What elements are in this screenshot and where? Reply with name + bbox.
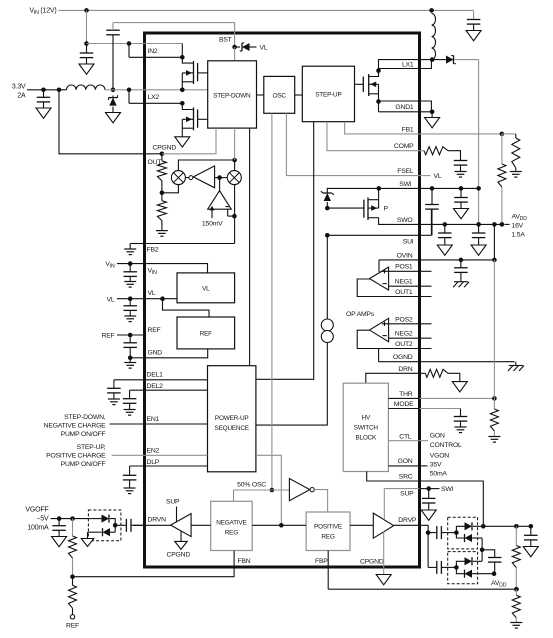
transistor Q3 boost NMOS xyxy=(355,83,364,85)
svg-text:STEP-UP,: STEP-UP, xyxy=(77,444,106,451)
block REF xyxy=(177,317,235,349)
svg-text:BST: BST xyxy=(219,37,232,44)
wire VL to REF block xyxy=(163,299,210,317)
150mV arrow input xyxy=(211,207,213,218)
svg-text:OSC: OSC xyxy=(273,92,287,99)
svg-text:POS1: POS1 xyxy=(395,264,413,271)
junction OUT node xyxy=(160,152,165,157)
diode DP1 xyxy=(456,526,464,532)
wire BST to STEP-DOWN xyxy=(234,47,236,61)
svg-text:DRVP: DRVP xyxy=(398,517,417,524)
wire VL pin to VL block xyxy=(145,298,178,300)
svg-text:35V: 35V xyxy=(430,462,442,469)
wire 50% OSC to NEGATIVE REG xyxy=(234,490,272,501)
capacitor SWI to ground xyxy=(460,188,462,197)
wire VIN branch down to IN2 line xyxy=(86,10,88,43)
capacitor bootstrap BST xyxy=(112,35,114,90)
svg-text:EN1: EN1 xyxy=(147,416,160,423)
diode boost rectifier D1 xyxy=(432,59,446,61)
wire regs common drive xyxy=(252,524,306,526)
svg-text:CONTROL: CONTROL xyxy=(430,442,462,449)
inductor L1 boost xyxy=(429,8,434,13)
ground DRN xyxy=(452,382,467,392)
IC boundary xyxy=(145,33,420,567)
svg-text:NEGATIVE: NEGATIVE xyxy=(216,519,246,526)
capacitor input bypass C-IN2 xyxy=(86,44,88,54)
ground GND pin xyxy=(129,358,131,363)
svg-text:DLP: DLP xyxy=(147,459,160,466)
svg-text:LX2: LX2 xyxy=(148,94,160,101)
ground DN2 xyxy=(87,532,89,538)
svg-text:STEP-DOWN,: STEP-DOWN, xyxy=(64,414,106,421)
svg-text:NEGATIVE CHARGE: NEGATIVE CHARGE xyxy=(44,423,106,430)
svg-text:FSEL: FSEL xyxy=(397,168,414,175)
wire OSC to STEP-UP xyxy=(295,94,303,96)
inverter between multipliers xyxy=(185,177,189,179)
svg-text:MODE: MODE xyxy=(394,401,414,408)
wire 50% OSC to inverter xyxy=(272,489,290,491)
wire current source down to power-up sequence xyxy=(256,343,327,426)
svg-text:P: P xyxy=(384,206,389,213)
svg-text:HV: HV xyxy=(362,414,371,421)
svg-text:REF: REF xyxy=(200,331,212,338)
svg-text:OGND: OGND xyxy=(393,354,413,361)
svg-text:SUI: SUI xyxy=(403,239,414,246)
wire STEP-DOWN to OSC xyxy=(257,94,264,96)
svg-text:1.5A: 1.5A xyxy=(512,232,526,239)
driver DRVN xyxy=(191,524,211,526)
junction BST xyxy=(232,45,237,50)
capacitor VIN right bypass xyxy=(473,10,475,19)
diode schottky catch D2 xyxy=(112,96,114,98)
ground OGND slash xyxy=(509,365,523,367)
wire DRVP out xyxy=(394,525,428,532)
ground Q2 source xyxy=(175,137,190,147)
op-amp U2 xyxy=(370,318,389,342)
capacitor AVDD 2 xyxy=(478,224,480,233)
ground COMP xyxy=(455,171,467,173)
svg-text:OP AMPs: OP AMPs xyxy=(346,311,375,318)
resistor COMP xyxy=(424,147,448,155)
svg-text:FBN: FBN xyxy=(238,558,251,565)
block STEP-DOWN xyxy=(208,61,257,128)
diode DP4 xyxy=(456,567,464,573)
resistor VGOFF feedback upper xyxy=(72,519,74,536)
wire power-up to regs EN xyxy=(256,455,281,525)
svg-text:SUP: SUP xyxy=(166,499,180,506)
junction CPGND branch xyxy=(57,88,62,93)
svg-text:CPGND: CPGND xyxy=(153,144,177,151)
svg-text:DEL2: DEL2 xyxy=(147,383,164,390)
wire GND to REF block xyxy=(145,349,208,358)
capacitor VGON out xyxy=(530,526,532,535)
svg-text:STEP-DOWN: STEP-DOWN xyxy=(213,92,251,99)
capacitor DEL1 xyxy=(113,380,115,389)
wire FBN rail xyxy=(73,551,235,577)
svg-text:REF: REF xyxy=(66,623,79,630)
wire boost output down xyxy=(478,60,480,225)
svg-text:POS2: POS2 xyxy=(395,316,413,323)
junction LX2 node xyxy=(111,88,116,93)
resistor FB1 to AVDD xyxy=(501,134,503,164)
svg-text:GON: GON xyxy=(430,433,445,440)
svg-text:100mA: 100mA xyxy=(27,525,49,532)
capacitor flying SWI-SUI xyxy=(431,188,433,204)
svg-text:IN2: IN2 xyxy=(148,48,158,55)
diode DN2 xyxy=(114,525,116,532)
resistor DRN xyxy=(425,369,448,377)
capacitor VIN bypass xyxy=(129,264,131,272)
svg-text:GND1: GND1 xyxy=(395,104,414,111)
wire SWO AVDD rail xyxy=(420,223,502,225)
wire divider tap to multiplier xyxy=(162,185,179,193)
wire X1 top xyxy=(178,160,234,171)
ground under D2 xyxy=(106,113,121,123)
wire LX2 gray into IC xyxy=(105,89,208,91)
wire CPGND return xyxy=(59,90,162,154)
wire THR to AVDD xyxy=(493,260,495,399)
transistor P charge-pump switch xyxy=(327,207,364,209)
capacitor interstage xyxy=(482,550,495,558)
svg-text:COMP: COMP xyxy=(394,143,414,150)
junction IN2 node xyxy=(84,41,89,46)
resistor FBP upper xyxy=(515,526,517,545)
multiplier X1 xyxy=(171,171,185,185)
wire power-up to STEP-UP xyxy=(256,122,314,380)
transistor Q1 buck high-side NMOS xyxy=(180,55,185,60)
block VL xyxy=(177,273,235,303)
svg-text:OUT2: OUT2 xyxy=(395,341,413,348)
wire IN2 black pair xyxy=(127,41,132,46)
capacitor COMP xyxy=(448,151,461,161)
svg-text:16V: 16V xyxy=(512,223,524,230)
wire LX2 black pair xyxy=(127,88,132,93)
capacitor AVDD 1 xyxy=(444,224,446,233)
diode DP3 xyxy=(456,561,464,567)
block OSC xyxy=(264,76,295,113)
capacitor SUP xyxy=(428,489,430,499)
svg-text:3.3V: 3.3V xyxy=(12,84,26,91)
svg-text:VL: VL xyxy=(148,290,156,297)
svg-text:NEG2: NEG2 xyxy=(395,331,413,338)
wire inverter to POSITIVE REG xyxy=(314,490,327,512)
capacitor OVIN xyxy=(460,260,462,268)
wire bootstrap to BST pin xyxy=(113,23,235,47)
junction 3.3V cap xyxy=(41,88,46,93)
svg-text:REG: REG xyxy=(225,529,238,536)
svg-text:SUP: SUP xyxy=(400,491,414,498)
wire VIN rail xyxy=(59,9,474,11)
block NEGATIVE REG xyxy=(211,501,253,550)
wire VGOFF node xyxy=(51,518,89,520)
resistor THR to ground xyxy=(493,398,495,409)
svg-text:FB1: FB1 xyxy=(402,126,414,133)
svg-text:VL: VL xyxy=(107,296,115,303)
svg-text:SWO: SWO xyxy=(397,217,413,224)
svg-text:LX1: LX1 xyxy=(402,61,414,68)
capacitor VGOFF xyxy=(58,519,60,526)
svg-text:SRC: SRC xyxy=(399,473,413,480)
svg-text:2A: 2A xyxy=(17,93,26,100)
ground FB1 divider xyxy=(510,171,522,173)
svg-text:POWER-UP: POWER-UP xyxy=(215,415,249,422)
block POWER-UP SEQUENCE xyxy=(208,366,256,472)
minus input xyxy=(225,206,229,208)
capacitor DRVN flying xyxy=(115,524,126,526)
svg-text:VL: VL xyxy=(202,286,210,293)
wire SUP to DRVP driver xyxy=(383,489,385,520)
op-amp U1 xyxy=(370,267,389,290)
svg-text:SWI: SWI xyxy=(441,486,454,493)
resistor FBP lower xyxy=(515,589,517,595)
diode DP2 xyxy=(456,533,464,538)
svg-text:THR: THR xyxy=(399,391,413,398)
svg-text:GON: GON xyxy=(398,458,413,465)
wire STEP-DOWN down to X2 xyxy=(234,128,236,160)
inverter 50% OSC xyxy=(289,479,309,501)
svg-text:150mV: 150mV xyxy=(202,221,223,228)
wire X2 down to FB2 xyxy=(234,185,236,244)
svg-text:CPGND: CPGND xyxy=(360,559,384,566)
diode pack negative pump xyxy=(88,510,121,541)
junction VIN-branch xyxy=(84,8,89,13)
diode DN1 xyxy=(88,518,101,520)
svg-text:50% OSC: 50% OSC xyxy=(237,482,266,489)
comparator 150mV xyxy=(219,178,221,191)
wire OSC 50% line xyxy=(271,113,273,490)
svg-text:VL: VL xyxy=(260,45,268,52)
svg-text:REF: REF xyxy=(148,327,161,334)
svg-text:PUMP ON/OFF: PUMP ON/OFF xyxy=(61,461,106,468)
svg-text:OUT1: OUT1 xyxy=(395,289,413,296)
current source to op-amps xyxy=(321,319,333,331)
svg-text:NEG1: NEG1 xyxy=(395,279,413,286)
zener shunt at P switch xyxy=(327,188,379,193)
ground VIN right cap xyxy=(466,31,481,41)
wire zener node down to current source xyxy=(326,235,328,319)
inductor L2 buck xyxy=(67,85,106,90)
wire OVIN to AVDD rail xyxy=(493,224,495,260)
capacitor DEL2 xyxy=(129,390,131,399)
resistor VGOFF feedback lower to REF xyxy=(72,577,74,586)
wire VGON rail xyxy=(483,525,531,527)
block POSITIVE REG xyxy=(306,512,350,551)
driver DRVP xyxy=(350,524,373,526)
ground OVIN slash xyxy=(454,281,468,283)
ground under 3.3V cap xyxy=(36,108,51,118)
svg-text:CPGND: CPGND xyxy=(167,552,191,559)
internal error amp chain: divider xyxy=(161,154,163,161)
positive charge pump stage 2 xyxy=(427,533,429,568)
wire to X2 xyxy=(215,177,228,179)
svg-text:VGOFF: VGOFF xyxy=(25,507,48,514)
svg-text:VGON: VGON xyxy=(430,453,450,460)
svg-text:PUMP ON/OFF: PUMP ON/OFF xyxy=(61,431,106,438)
ground CPGND left driver xyxy=(180,531,182,541)
svg-text:SEQUENCE: SEQUENCE xyxy=(215,425,249,432)
svg-text:SWITCH: SWITCH xyxy=(354,424,379,431)
svg-text:STEP-UP: STEP-UP xyxy=(315,91,341,98)
terminal REF xyxy=(70,615,74,619)
capacitor VL bypass xyxy=(129,299,131,306)
svg-text:POSITIVE CHARGE: POSITIVE CHARGE xyxy=(46,453,106,460)
wire FB2 external ground xyxy=(130,243,144,245)
svg-text:GND: GND xyxy=(148,350,163,357)
svg-text:50mA: 50mA xyxy=(430,471,448,478)
wire GND1 loop xyxy=(379,101,432,112)
resistor FB1 top divider xyxy=(502,133,516,135)
wire CPGND to STEP-DOWN xyxy=(162,128,216,154)
wire IN2 gray into IC xyxy=(87,43,183,45)
svg-text:POSITIVE: POSITIVE xyxy=(314,524,342,531)
svg-text:DEL1: DEL1 xyxy=(147,372,164,379)
svg-text:BLOCK: BLOCK xyxy=(355,434,377,441)
svg-text:REF: REF xyxy=(102,332,115,339)
ground GND1 xyxy=(431,112,433,118)
wire FSEL to OSC xyxy=(286,113,419,175)
diode BST-VL xyxy=(235,46,240,48)
svg-text:EN2: EN2 xyxy=(147,448,160,455)
capacitor REF bypass xyxy=(129,335,131,343)
wire 3.3V node xyxy=(27,89,67,91)
capacitor 3.3V output xyxy=(43,90,45,98)
capacitor DLP xyxy=(129,466,131,475)
svg-text:FB2: FB2 xyxy=(147,247,159,254)
svg-text:DRN: DRN xyxy=(398,366,412,373)
ground under C-IN2 xyxy=(79,64,94,74)
svg-text:FBP: FBP xyxy=(315,558,328,565)
multiplier X2 xyxy=(227,171,241,185)
svg-text:VL: VL xyxy=(434,173,442,180)
wire LX1 loop xyxy=(379,60,433,71)
svg-text:SWI: SWI xyxy=(399,181,412,188)
block STEP-UP xyxy=(302,66,354,122)
wire VIN to VL block xyxy=(145,264,208,273)
positive charge pump stage 1 xyxy=(428,532,437,534)
wire STEP-DOWN to power-up xyxy=(249,128,251,366)
transistor Q2 buck low-side NMOS xyxy=(180,101,185,106)
block HV SWITCH BLOCK xyxy=(343,383,388,471)
capacitor MODE xyxy=(460,409,462,417)
svg-text:OVIN: OVIN xyxy=(397,252,413,259)
svg-text:−5V: −5V xyxy=(36,516,49,523)
svg-text:REG: REG xyxy=(321,534,334,541)
svg-text:CTL: CTL xyxy=(399,434,412,441)
svg-text:DRVN: DRVN xyxy=(148,516,167,523)
